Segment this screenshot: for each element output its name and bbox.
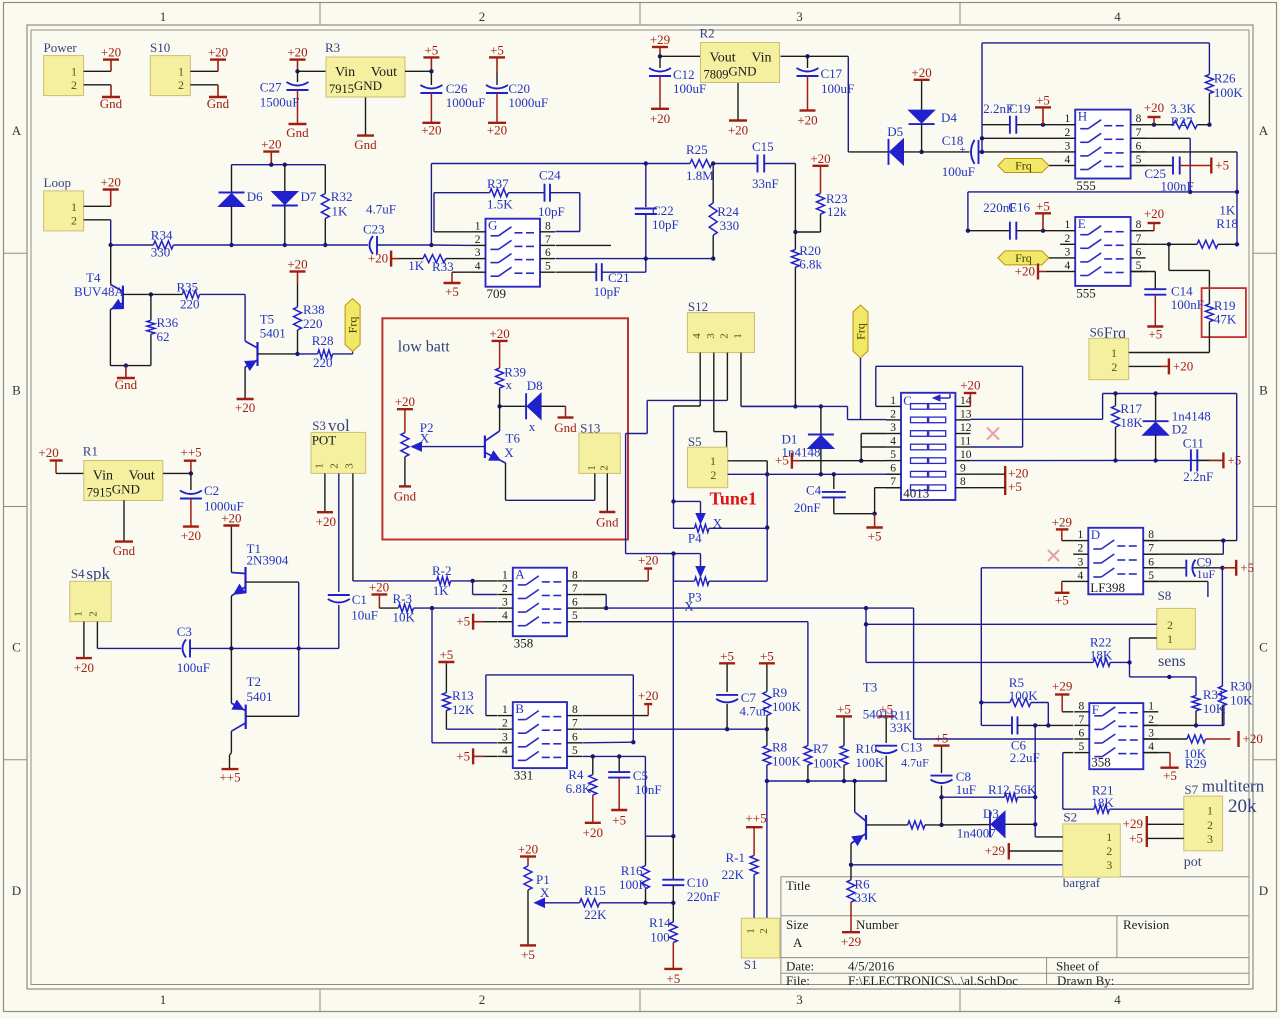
svg-text:D: D [12,883,21,898]
svg-text:C1: C1 [352,592,367,607]
svg-text:+20: +20 [518,842,538,857]
node C27/R3 [295,69,299,73]
svg-text:330: 330 [720,218,740,233]
node rail1 [269,163,273,167]
svg-text:C2: C2 [204,483,219,498]
svg-text:S12: S12 [688,299,708,314]
svg-text:bargraf: bargraf [1063,875,1101,890]
capacitor C21 on pin5 [556,271,597,273]
svg-text:A: A [793,935,803,950]
svg-text:R-2: R-2 [432,563,452,578]
wire F pin2 / resistor R31 [1143,724,1196,726]
connector Power [44,56,84,96]
power +20 H pin8 [1131,124,1154,126]
svg-text:3: 3 [343,463,355,469]
connector S1 [741,918,779,958]
svg-text:R10: R10 [856,741,878,756]
power +5 C26 [430,57,432,71]
svg-text:F: F [1092,702,1099,717]
svg-text:H: H [1078,109,1087,124]
wire C pin1 loop to pin11 [876,405,886,407]
wire top rail [1103,393,1237,395]
resistor R32 [324,165,326,194]
svg-text:Gnd: Gnd [115,377,138,392]
wire riser P4 [766,474,768,527]
svg-text:A: A [1259,123,1269,138]
capacitor C22 [645,164,647,208]
svg-text:R4: R4 [568,767,584,782]
node D7 bottom [283,243,287,247]
resistor R28 [298,353,318,355]
svg-text:10: 10 [960,449,972,461]
wire R2 GND [737,83,739,121]
wire +20 rail [232,164,326,166]
svg-text:pot: pot [1184,855,1202,870]
svg-text:9: 9 [960,463,966,475]
node C7 [725,727,729,731]
resistor R27 3.3K [1154,124,1173,126]
svg-text:10uF: 10uF [351,607,378,622]
svg-text:3: 3 [796,9,803,24]
title block [781,876,1249,878]
svg-text:GND: GND [728,64,756,79]
svg-text:R13: R13 [452,688,474,703]
wire S5 pin1 [728,460,768,462]
svg-text:R31: R31 [1203,687,1225,702]
svg-text:2N3904: 2N3904 [247,553,289,568]
wire D pin8 [1143,540,1237,542]
node T5/R38 [295,352,299,356]
wire pin1-pin2 tie [472,581,474,595]
svg-text:2.2nF: 2.2nF [1183,469,1213,484]
svg-text:C15: C15 [752,139,774,154]
svg-text:+20: +20 [235,400,255,415]
svg-text:Frq: Frq [854,323,868,340]
wire R-3 node down to B pin3 [431,608,433,743]
node +5 / C pin7 [872,512,876,516]
node C23/G2 [429,243,433,247]
svg-text:B: B [515,701,524,716]
net label Frq (T5) [352,352,354,354]
svg-text:+5: +5 [1036,92,1050,107]
svg-text:100uF: 100uF [673,81,706,96]
svg-text:+20: +20 [74,660,94,675]
svg-text:100: 100 [650,929,670,944]
wire R19 net [1168,244,1170,270]
svg-text:C20: C20 [508,81,530,96]
low batt red box [382,318,628,539]
svg-text:+29: +29 [1052,515,1072,530]
op-amp D LF398 [1088,528,1143,595]
svg-text:Gnd: Gnd [207,96,230,111]
resistor R-1 [750,855,758,874]
op-amp G 709 [486,219,541,287]
svg-text:R30: R30 [1230,679,1252,694]
svg-text:R34: R34 [151,228,173,243]
node R9/R8 [765,727,769,731]
node R8/row781 [765,779,769,783]
svg-text:3: 3 [1207,832,1213,846]
IC C 4013 [901,393,955,500]
svg-text:555: 555 [1076,178,1096,193]
svg-text:+5: +5 [424,42,438,57]
svg-text:2: 2 [718,333,730,339]
svg-text:C27: C27 [260,80,282,95]
svg-text:+5: +5 [760,648,774,663]
svg-text:4.7uF: 4.7uF [366,202,396,217]
wire C13net riser [1102,394,1104,420]
svg-text:R27: R27 [1171,114,1193,129]
capacitor C15 [757,155,759,173]
svg-text:220: 220 [313,355,333,370]
svg-text:2: 2 [1111,360,1117,374]
node R-3/A pin3 [430,606,434,610]
svg-text:+5: +5 [490,42,504,57]
wire pin6 to R24 [646,258,713,260]
svg-text:R8: R8 [772,740,787,755]
power +20 C26 (bar down) [422,122,440,124]
svg-text:A: A [12,123,22,138]
svg-text:R-1: R-1 [726,850,746,865]
transistor T6 [499,406,501,431]
svg-text:1000uF: 1000uF [446,95,486,110]
svg-text:10pF: 10pF [594,284,621,299]
resistor R16 [645,836,647,865]
resistor R39 [499,341,501,368]
wire S6 pin1 [1129,352,1210,354]
regulator R3 7915 [326,57,405,97]
svg-text:2: 2 [88,611,100,617]
wire S12 pin4 to P4 [699,353,701,406]
power +20 (bar right) [1237,731,1239,747]
svg-text:R12: R12 [988,782,1010,797]
svg-text:1K: 1K [408,258,425,273]
svg-text:11: 11 [960,436,971,448]
node Loop junction [109,243,113,247]
svg-text:D7: D7 [301,189,317,204]
svg-text:R18: R18 [1216,216,1238,231]
power +20 B pin8 [582,715,648,717]
svg-text:+29: +29 [1052,678,1072,693]
svg-text:T3: T3 [863,680,877,695]
wire X-line down to C10 [672,555,674,836]
svg-text:100K: 100K [772,699,802,714]
svg-text:R38: R38 [303,302,325,317]
wire S12 pin2 to P3 [726,353,728,401]
svg-text:7: 7 [1148,543,1154,555]
diode D7 [284,165,286,191]
svg-text:+5: +5 [1036,198,1050,213]
diode D3 1n4007 [942,824,991,826]
capacitor C3 [183,639,187,657]
capacitor C20 [496,57,498,71]
resistor R10 [843,716,845,717]
svg-text:1.5K: 1.5K [487,197,513,212]
resistor R23 [820,165,822,167]
wire S13 pin2 [606,473,608,512]
wire E pin5 to C14 [1131,271,1156,273]
svg-text:1K: 1K [1219,202,1236,217]
svg-text:F:\ELECTRONICS\..\al.SchDoc: F:\ELECTRONICS\..\al.SchDoc [848,973,1018,988]
ground Gnd C27 [289,123,307,125]
svg-text:GND: GND [112,482,140,497]
svg-text:4.7uF: 4.7uF [901,755,929,769]
svg-text:Number: Number [856,917,899,932]
svg-text:100K: 100K [619,877,649,892]
svg-text:+5: +5 [1227,452,1241,467]
power +20 S4 (bar down) [76,657,92,659]
svg-text:7: 7 [1079,714,1085,726]
svg-text:6: 6 [572,597,578,609]
wire C pin4 [861,446,886,448]
op-amp H 555 [1075,110,1130,179]
diode D2 1n4148 [1155,394,1157,421]
wire T4 base [123,293,182,295]
svg-text:4: 4 [502,610,508,622]
potentiometer P3 [671,551,675,555]
svg-text:10K: 10K [1203,701,1226,716]
svg-text:BUV48A: BUV48A [74,284,124,299]
svg-text:3: 3 [1106,858,1112,872]
svg-text:220nF: 220nF [687,889,720,904]
svg-text:+5: +5 [775,453,789,468]
svg-text:10K: 10K [1230,693,1253,708]
power +20 Power [110,60,112,72]
svg-text:1: 1 [178,65,184,79]
svg-text:2: 2 [1064,127,1070,139]
svg-text:Gnd: Gnd [554,420,577,435]
svg-text:P4: P4 [688,531,702,546]
svg-text:5: 5 [572,610,578,622]
node R5 bottom [1046,723,1050,727]
svg-text:R36: R36 [157,315,179,330]
svg-text:3: 3 [796,992,803,1007]
svg-text:10pF: 10pF [538,204,565,219]
svg-text:4: 4 [1078,570,1084,582]
net label Frq (E pin3) [998,251,1049,265]
node R17 top [1113,391,1117,395]
power +20 A pin8 [582,580,648,582]
svg-text:+20: +20 [1243,731,1263,746]
svg-text:R25: R25 [686,142,708,157]
resistor R36 [150,294,152,320]
svg-text:+5: +5 [521,947,535,962]
wire S8 pin2 long [866,623,1157,625]
svg-text:+5: +5 [445,284,459,299]
svg-text:S7: S7 [1184,782,1198,797]
svg-text:Title: Title [786,878,810,893]
svg-text:R7: R7 [813,741,829,756]
svg-text:+20: +20 [638,688,658,703]
svg-text:18K: 18K [1091,795,1114,810]
svg-text:multitern: multitern [1202,777,1265,796]
svg-text:Gnd: Gnd [286,125,309,140]
svg-text:+5: +5 [720,648,734,663]
svg-text:3: 3 [475,247,481,259]
svg-text:+20: +20 [395,394,415,409]
capacitor C17 [807,56,809,68]
svg-text:+5: +5 [1240,560,1254,575]
svg-text:1n4007: 1n4007 [957,826,997,841]
svg-text:GND: GND [354,78,382,93]
svg-text:5: 5 [1148,570,1154,582]
wire S3 pin3 [352,473,354,581]
node C17 [805,54,809,58]
wire Loop pin2 [84,219,111,221]
svg-text:+20: +20 [287,45,307,60]
svg-text:2: 2 [475,234,481,246]
node R24 top [711,161,715,165]
potentiometer P2 [404,409,406,410]
diode D4 [921,79,923,82]
capacitor C18 [922,151,970,153]
svg-text:R32: R32 [331,189,353,204]
transistor T2 5401 [245,705,247,729]
power +20 E pin4 (bar left) [1037,264,1039,280]
svg-text:1: 1 [1207,804,1213,818]
capacitor C16 [968,230,1010,232]
svg-text:2: 2 [502,583,508,595]
node R25 left [644,161,648,165]
svg-text:3: 3 [1064,140,1070,152]
svg-text:Gnd: Gnd [100,96,123,111]
svg-text:4/5/2016: 4/5/2016 [848,959,895,974]
svg-text:+20: +20 [208,45,228,60]
wire H pin6 [1131,151,1237,153]
wire S12 pin1 to D1 [740,353,742,407]
resistor R8 [766,729,768,746]
node C10 bottom [671,901,675,905]
wire H loop top [982,42,1209,44]
svg-text:2: 2 [71,213,77,227]
svg-text:555: 555 [1076,285,1096,300]
svg-text:R-3: R-3 [393,591,413,606]
svg-text:4: 4 [1114,9,1121,24]
svg-text:7915: 7915 [329,82,354,96]
svg-text:8: 8 [960,476,966,488]
svg-text:R29: R29 [1185,756,1207,771]
svg-text:1: 1 [586,465,598,471]
capacitor C6 [981,724,1012,726]
svg-text:C10: C10 [687,875,709,890]
svg-text:2: 2 [598,465,610,471]
svg-text:1: 1 [502,704,508,716]
power +20 R2 GND [729,119,747,121]
capacitor C23 [370,236,374,254]
svg-text:+20: +20 [316,514,336,529]
power +20 S6 pin2 (bar right) [1129,365,1161,367]
svg-text:33K: 33K [890,720,913,735]
svg-text:1: 1 [71,65,77,79]
svg-text:D: D [1259,883,1268,898]
svg-text:R28: R28 [312,333,334,348]
connector S10 [150,56,190,96]
svg-text:7915: 7915 [87,486,112,500]
node S5 pin2 / P risers [765,472,769,476]
wire A pin7 [582,594,606,596]
svg-text:R1: R1 [83,444,98,459]
svg-text:6: 6 [545,247,551,259]
svg-text:1: 1 [1078,529,1084,541]
node H pin1 [1041,123,1045,127]
node R4 [591,754,595,758]
svg-text:+20: +20 [1173,358,1193,373]
svg-text:+20: +20 [638,553,658,568]
svg-text:8: 8 [572,704,578,716]
svg-text:R14: R14 [649,915,671,930]
svg-text:330: 330 [151,245,171,260]
svg-text:+20: +20 [1015,264,1035,279]
svg-text:+5: +5 [1008,479,1022,494]
svg-text:1: 1 [160,9,167,24]
wire S13 pin1 [594,473,596,500]
svg-text:1: 1 [502,569,508,581]
svg-text:3: 3 [502,597,508,609]
svg-text:B: B [12,383,21,398]
svg-text:x: x [529,419,536,434]
svg-text:1: 1 [1148,700,1154,712]
svg-text:+20: +20 [1144,100,1164,115]
svg-text:+20: +20 [797,113,817,128]
svg-text:C16: C16 [1008,200,1030,215]
svg-text:R17: R17 [1120,401,1142,416]
svg-text:7: 7 [890,476,896,488]
svg-text:5: 5 [545,261,551,273]
wire to R3 Vin [298,70,327,72]
wire S5pin2 net to C pin6 [834,473,901,475]
svg-text:X: X [504,445,514,460]
svg-text:1uF: 1uF [1197,567,1216,581]
op-amp A 358 [513,568,567,637]
wire row 781 [767,780,887,782]
ground Gnd R3 [357,134,374,136]
svg-text:S10: S10 [150,40,170,55]
svg-text:C21: C21 [608,270,630,285]
capacitor C25 on H pin5 [1131,165,1173,167]
diode D6 [231,165,233,192]
wire B pin7 long [582,728,767,730]
svg-text:+5: +5 [439,647,453,662]
svg-text:R16: R16 [621,863,643,878]
power +5 C11 (bar right) [1222,452,1224,468]
wire B pin5 [582,755,645,757]
svg-text:C11: C11 [1183,436,1204,451]
node R11/C8 [939,823,943,827]
svg-text:T2: T2 [247,674,261,689]
svg-text:+20: +20 [650,111,670,126]
resistor R25 [646,163,690,165]
wire C1 to node [299,647,339,649]
resistor R-3 [379,607,398,609]
svg-text:D8: D8 [527,378,543,393]
wire D pin5 [1143,580,1208,582]
svg-text:Size: Size [786,917,809,932]
transistor T5 5401 [256,342,258,366]
svg-text:sens: sens [1158,653,1186,670]
resistor R34 [111,244,154,246]
svg-text:1500uF: 1500uF [260,95,300,110]
svg-text:+5: +5 [1148,327,1162,342]
svg-text:Gnd: Gnd [394,489,417,504]
svg-text:C17: C17 [821,66,843,81]
svg-text:1: 1 [710,454,716,468]
wire S4 pin2 [96,622,98,649]
svg-text:Date:: Date: [786,959,814,974]
wire riser to top net [430,164,432,246]
svg-text:+5: +5 [1055,593,1069,608]
svg-text:C13: C13 [901,740,923,755]
svg-text:+5: +5 [612,813,626,828]
